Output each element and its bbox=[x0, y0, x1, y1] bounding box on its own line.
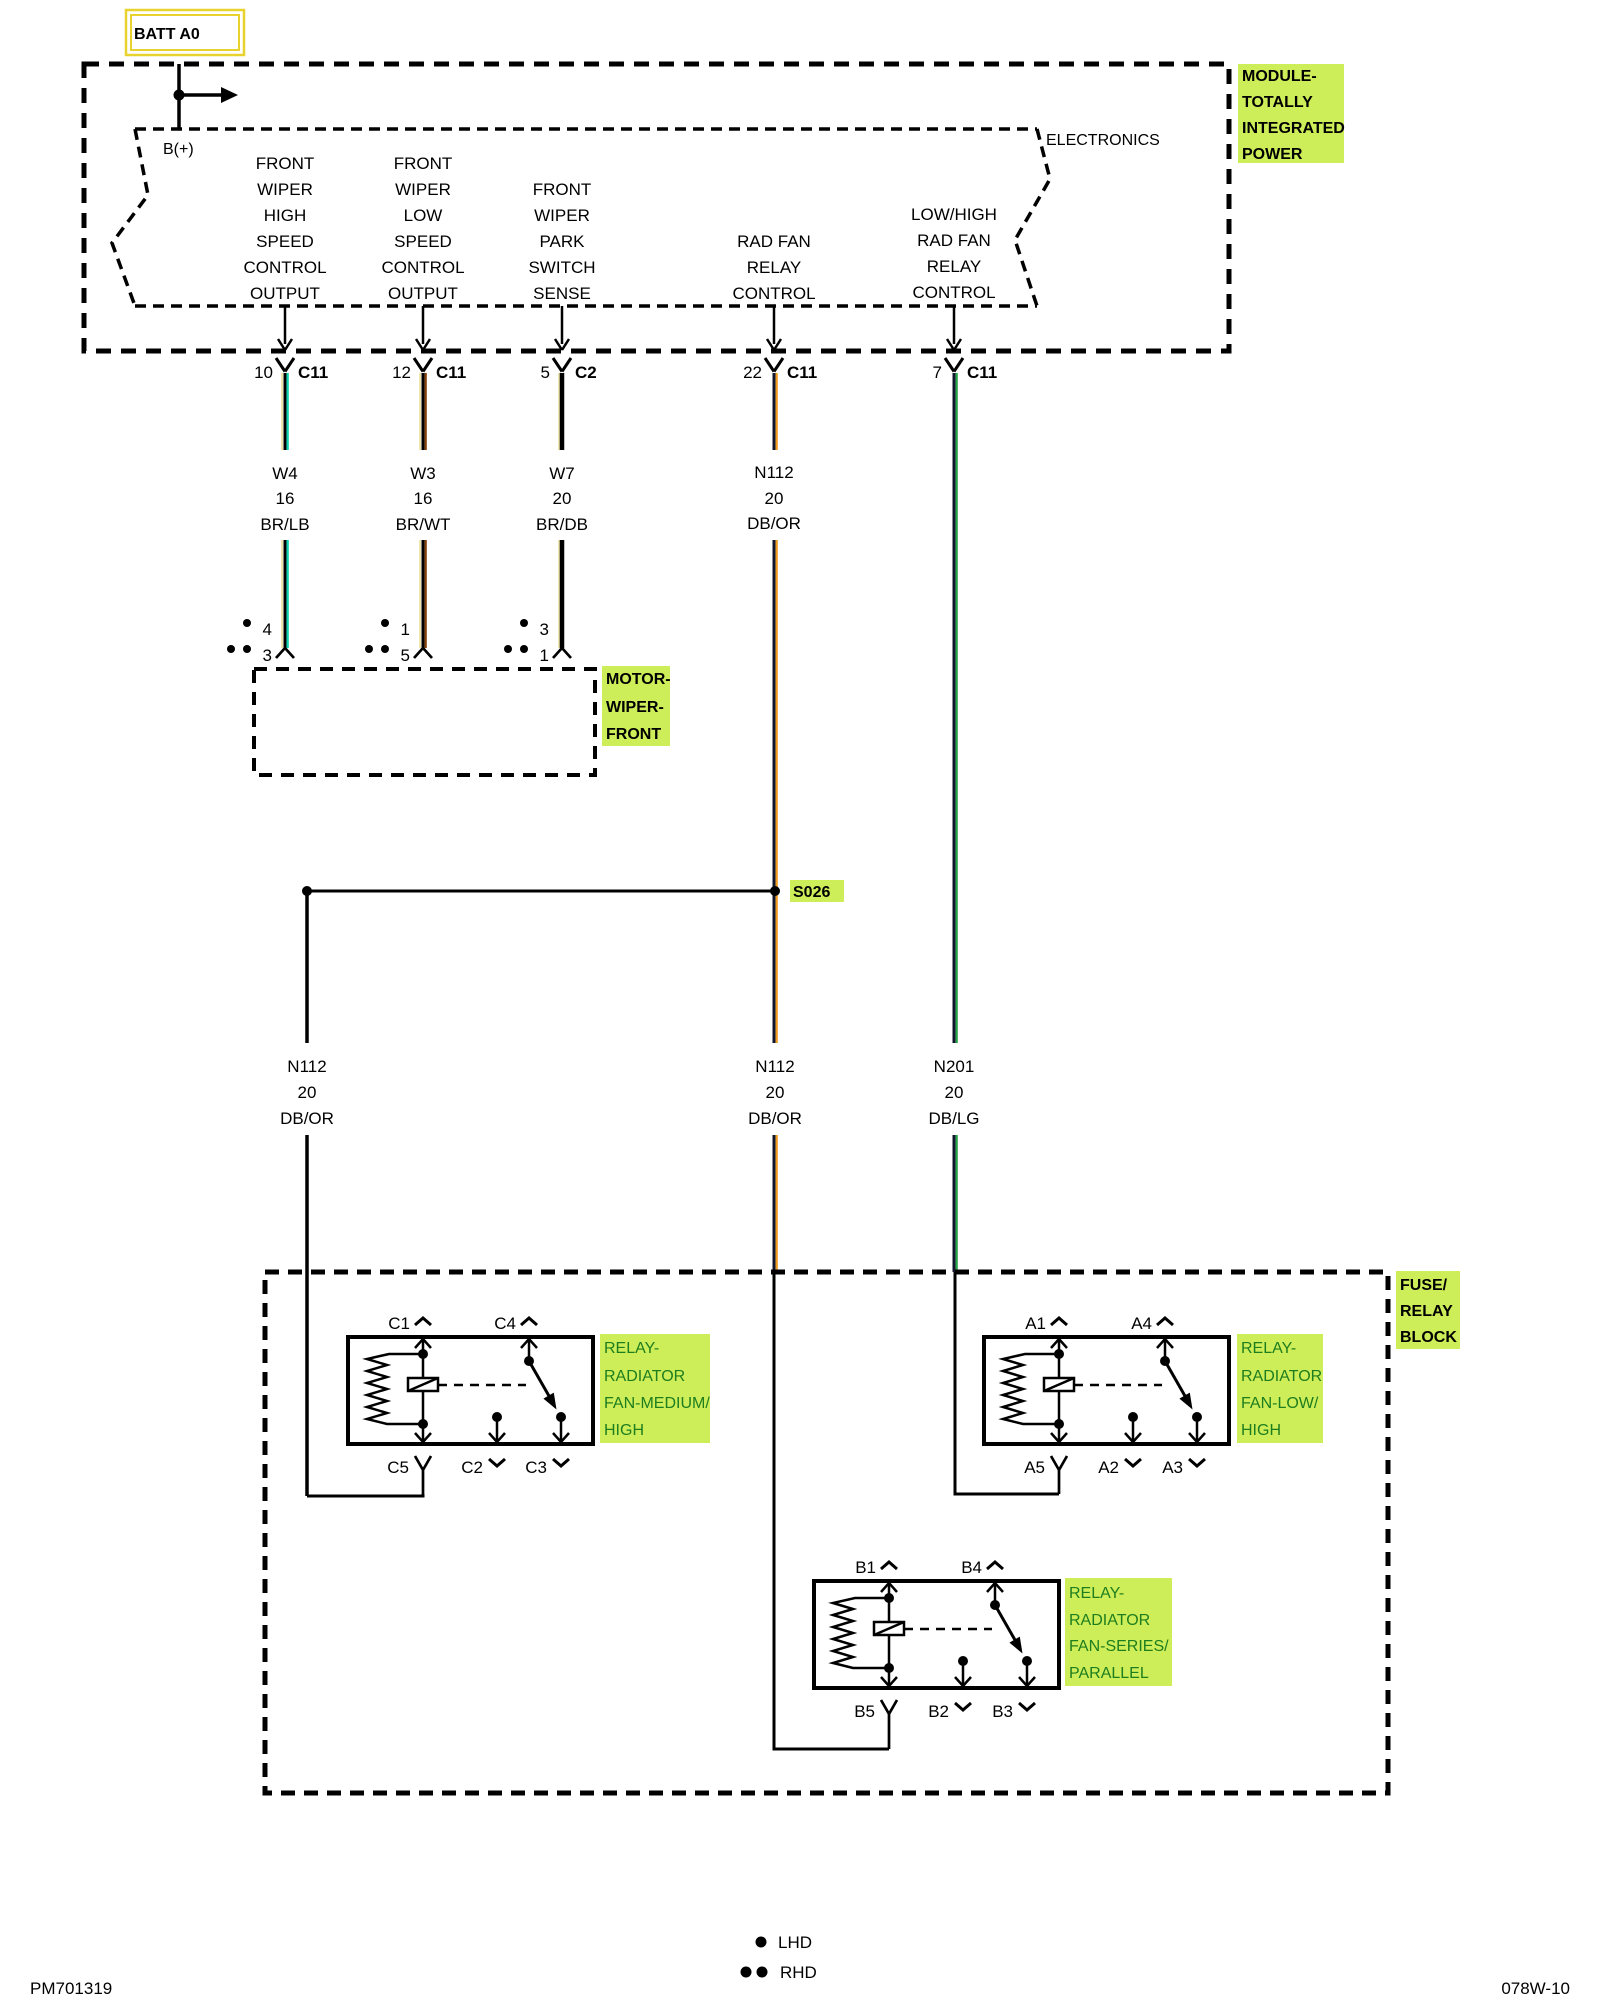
wire label W7 20 BR/DB bbox=[536, 464, 588, 534]
svg-text:N112: N112 bbox=[755, 1057, 794, 1076]
svg-text:HIGH: HIGH bbox=[604, 1422, 644, 1439]
wire N201 20 DB/LG (dark blue/light green) bbox=[953, 373, 956, 1043]
svg-text:FRONT: FRONT bbox=[394, 154, 453, 173]
label RELAY-RADIATOR FAN-SERIES/PARALLEL bbox=[1065, 1578, 1172, 1686]
svg-text:SPEED: SPEED bbox=[256, 232, 314, 251]
relay RELAY-RADIATOR FAN-SERIES/PARALLEL resistor bbox=[833, 1598, 889, 1668]
label RELAY-RADIATOR FAN-MEDIUM/HIGH bbox=[600, 1334, 710, 1443]
relay RELAY-RADIATOR FAN-LOW/HIGH coil bbox=[1044, 1378, 1074, 1391]
svg-text:5: 5 bbox=[401, 646, 410, 665]
svg-text:RELAY: RELAY bbox=[927, 257, 982, 276]
wire label N112 20 DB/OR (center) bbox=[748, 1057, 802, 1128]
module TIPM outer dashed box bbox=[84, 64, 1229, 351]
svg-text:CONTROL: CONTROL bbox=[381, 258, 464, 277]
relay RELAY-RADIATOR FAN-LOW/HIGH switch arm bbox=[1165, 1361, 1189, 1403]
module output arrow col 1 bbox=[284, 306, 287, 344]
svg-text:SENSE: SENSE bbox=[533, 284, 591, 303]
connector C11 pin 7 bbox=[933, 358, 998, 382]
svg-text:20: 20 bbox=[298, 1083, 317, 1102]
svg-text:FRONT: FRONT bbox=[533, 180, 592, 199]
svg-text:10: 10 bbox=[254, 363, 273, 382]
svg-text:LOW/HIGH: LOW/HIGH bbox=[911, 205, 997, 224]
svg-text:RAD FAN: RAD FAN bbox=[737, 232, 811, 251]
LHD pin dot and number 1 bbox=[381, 619, 389, 627]
svg-text:ELECTRONICS: ELECTRONICS bbox=[1046, 132, 1160, 149]
module output arrow col 2 bbox=[422, 306, 425, 344]
svg-text:WIPER: WIPER bbox=[534, 206, 590, 225]
svg-text:C11: C11 bbox=[298, 363, 328, 382]
svg-text:BATT A0: BATT A0 bbox=[134, 26, 200, 43]
relay RELAY-RADIATOR FAN-LOW/HIGH coil feed line pin A1 bbox=[1058, 1337, 1061, 1424]
svg-text:RELAY: RELAY bbox=[747, 258, 802, 277]
svg-text:RELAY-: RELAY- bbox=[604, 1340, 659, 1357]
relay RELAY-RADIATOR FAN-SERIES/PARALLEL body bbox=[814, 1581, 1059, 1688]
svg-text:20: 20 bbox=[765, 489, 784, 508]
relay RELAY-RADIATOR FAN-MEDIUM/HIGH pin C4 chevron and label bbox=[521, 1318, 537, 1325]
svg-text:078W-10: 078W-10 bbox=[1501, 1979, 1570, 1998]
relay RELAY-RADIATOR FAN-MEDIUM/HIGH switch arm bbox=[529, 1361, 553, 1403]
svg-text:BLOCK: BLOCK bbox=[1400, 1329, 1457, 1346]
RHD pin dots and number 5 bbox=[365, 645, 373, 653]
label RELAY-RADIATOR FAN-LOW/HIGH bbox=[1237, 1334, 1323, 1443]
splice dot S026 bbox=[770, 886, 780, 896]
relay RELAY-RADIATOR FAN-SERIES/PARALLEL NC contact pin B2 bbox=[958, 1656, 968, 1666]
svg-text:OUTPUT: OUTPUT bbox=[388, 284, 458, 303]
svg-text:PARK: PARK bbox=[539, 232, 585, 251]
svg-text:WIPER-: WIPER- bbox=[606, 699, 664, 716]
junction dot B(+) bbox=[174, 90, 185, 101]
svg-text:PARALLEL: PARALLEL bbox=[1069, 1665, 1149, 1682]
svg-text:RHD: RHD bbox=[780, 1963, 817, 1982]
svg-text:POWER: POWER bbox=[1242, 146, 1303, 163]
relay RELAY-RADIATOR FAN-LOW/HIGH pin A3 chevron and label bbox=[1189, 1459, 1205, 1466]
relay RELAY-RADIATOR FAN-MEDIUM/HIGH common line pin C4 bbox=[528, 1337, 531, 1361]
svg-text:W4: W4 bbox=[272, 464, 298, 483]
svg-text:N201: N201 bbox=[934, 1057, 975, 1076]
svg-text:C11: C11 bbox=[436, 363, 466, 382]
svg-text:B2: B2 bbox=[928, 1702, 949, 1721]
relay RELAY-RADIATOR FAN-SERIES/PARALLEL junction dots on coil line bbox=[884, 1593, 894, 1603]
svg-text:A1: A1 bbox=[1025, 1314, 1046, 1333]
connector C2 pin 5 bbox=[541, 358, 597, 382]
svg-text:20: 20 bbox=[945, 1083, 964, 1102]
svg-text:A3: A3 bbox=[1162, 1458, 1183, 1477]
motor connector fork col 3 bbox=[553, 648, 571, 658]
svg-text:CONTROL: CONTROL bbox=[243, 258, 326, 277]
svg-text:B3: B3 bbox=[992, 1702, 1013, 1721]
relay RELAY-RADIATOR FAN-LOW/HIGH NO contact pin A3 bbox=[1192, 1412, 1202, 1422]
module label MODULE-TOTALLY INTEGRATED POWER bbox=[1238, 64, 1345, 163]
wire label W4 16 BR/LB bbox=[260, 464, 309, 534]
relay RELAY-RADIATOR FAN-SERIES/PARALLEL pin B2 chevron and label bbox=[955, 1703, 971, 1710]
svg-text:C4: C4 bbox=[494, 1314, 516, 1333]
relay RELAY-RADIATOR FAN-LOW/HIGH pin A5 connector fork and label bbox=[1051, 1456, 1067, 1494]
relay RELAY-RADIATOR FAN-MEDIUM/HIGH coil feed line pin C1 bbox=[422, 1337, 425, 1424]
arrow to other circuits bbox=[179, 93, 222, 97]
wire W4 16 BR/LB (brown/light blue) bbox=[281, 373, 283, 450]
svg-text:20: 20 bbox=[766, 1083, 785, 1102]
svg-text:W7: W7 bbox=[549, 464, 575, 483]
svg-text:RELAY-: RELAY- bbox=[1069, 1585, 1124, 1602]
svg-text:FAN-LOW/: FAN-LOW/ bbox=[1241, 1395, 1319, 1412]
svg-text:C11: C11 bbox=[787, 363, 817, 382]
svg-text:B1: B1 bbox=[855, 1558, 876, 1577]
svg-text:BR/DB: BR/DB bbox=[536, 515, 588, 534]
svg-text:A2: A2 bbox=[1098, 1458, 1119, 1477]
svg-text:RAD FAN: RAD FAN bbox=[917, 231, 991, 250]
relay RELAY-RADIATOR FAN-MEDIUM/HIGH pin C3 chevron and label bbox=[553, 1459, 569, 1466]
legend LHD bbox=[756, 1933, 813, 1952]
svg-text:FAN-SERIES/: FAN-SERIES/ bbox=[1069, 1638, 1169, 1655]
relay RELAY-RADIATOR FAN-MEDIUM/HIGH junction dots on coil line bbox=[418, 1349, 428, 1359]
svg-text:W3: W3 bbox=[410, 464, 436, 483]
svg-text:HIGH: HIGH bbox=[264, 206, 307, 225]
svg-text:TOTALLY: TOTALLY bbox=[1242, 94, 1313, 111]
svg-text:WIPER: WIPER bbox=[395, 180, 451, 199]
power feed label BATT A0 bbox=[126, 10, 244, 55]
wire label W3 16 BR/WT bbox=[396, 464, 451, 534]
RHD pin dots and number 1 bbox=[504, 645, 512, 653]
relay RELAY-RADIATOR FAN-LOW/HIGH pin A1 chevron and label bbox=[1051, 1318, 1067, 1325]
relay RELAY-RADIATOR FAN-MEDIUM/HIGH body bbox=[348, 1337, 593, 1444]
svg-text:B5: B5 bbox=[854, 1702, 875, 1721]
wire N112 20 DB/OR (dark blue/orange) upper bbox=[773, 373, 776, 450]
svg-text:OUTPUT: OUTPUT bbox=[250, 284, 320, 303]
module output text LOW/HIGH RAD FAN RELAY CONTROL bbox=[911, 205, 997, 302]
wire W7 20 BR/DB (brown/dark blue) bbox=[558, 373, 560, 450]
label FUSE/RELAY BLOCK bbox=[1396, 1271, 1460, 1349]
svg-text:FRONT: FRONT bbox=[256, 154, 315, 173]
LHD pin dot and number 3 bbox=[520, 619, 528, 627]
svg-text:RELAY: RELAY bbox=[1400, 1303, 1453, 1320]
relay RELAY-RADIATOR FAN-LOW/HIGH pin A4 chevron and label bbox=[1157, 1318, 1173, 1325]
svg-text:C1: C1 bbox=[388, 1314, 410, 1333]
label MOTOR-WIPER-FRONT bbox=[602, 666, 671, 746]
motor connector fork col 2 bbox=[414, 648, 432, 658]
svg-text:16: 16 bbox=[276, 489, 295, 508]
svg-text:4: 4 bbox=[263, 620, 272, 639]
svg-text:LHD: LHD bbox=[778, 1933, 812, 1952]
relay RELAY-RADIATOR FAN-LOW/HIGH actuation dashed link bbox=[1074, 1384, 1162, 1387]
svg-text:DB/LG: DB/LG bbox=[928, 1109, 979, 1128]
svg-text:RADIATOR: RADIATOR bbox=[1069, 1612, 1150, 1629]
svg-text:INTEGRATED: INTEGRATED bbox=[1242, 120, 1345, 137]
svg-text:22: 22 bbox=[743, 363, 762, 382]
svg-text:C3: C3 bbox=[525, 1458, 547, 1477]
svg-text:CONTROL: CONTROL bbox=[912, 283, 995, 302]
relay RELAY-RADIATOR FAN-SERIES/PARALLEL common line pin B4 bbox=[994, 1581, 997, 1605]
wire relay A5 loop bbox=[955, 1272, 1059, 1494]
relay RELAY-RADIATOR FAN-SERIES/PARALLEL coil feed line pin B1 bbox=[888, 1581, 891, 1668]
svg-text:S026: S026 bbox=[793, 884, 830, 901]
relay RELAY-RADIATOR FAN-SERIES/PARALLEL pin B5 connector fork and label bbox=[881, 1700, 897, 1749]
module output text FRONT WIPER PARK SWITCH SENSE bbox=[528, 180, 595, 303]
wire left branch N112 (black) bbox=[305, 894, 309, 1496]
relay RELAY-RADIATOR FAN-SERIES/PARALLEL pin B4 chevron and label bbox=[987, 1562, 1003, 1569]
svg-text:B(+): B(+) bbox=[163, 141, 194, 158]
svg-text:C11: C11 bbox=[967, 363, 997, 382]
svg-text:1: 1 bbox=[401, 620, 410, 639]
wire label N112 20 DB/OR (left branch) bbox=[280, 1057, 334, 1128]
relay RELAY-RADIATOR FAN-SERIES/PARALLEL NO contact pin B3 bbox=[1022, 1656, 1032, 1666]
module output arrow col 5 bbox=[953, 306, 956, 344]
relay RELAY-RADIATOR FAN-LOW/HIGH NC contact pin A2 bbox=[1128, 1412, 1138, 1422]
svg-text:BR/LB: BR/LB bbox=[260, 515, 309, 534]
svg-text:RADIATOR: RADIATOR bbox=[1241, 1368, 1322, 1385]
svg-text:BR/WT: BR/WT bbox=[396, 515, 451, 534]
svg-text:FRONT: FRONT bbox=[606, 726, 661, 743]
svg-text:DB/OR: DB/OR bbox=[747, 514, 801, 533]
relay RELAY-RADIATOR FAN-SERIES/PARALLEL coil bbox=[874, 1622, 904, 1635]
svg-text:PM701319: PM701319 bbox=[30, 1979, 112, 1998]
svg-text:C2: C2 bbox=[461, 1458, 483, 1477]
svg-text:N112: N112 bbox=[754, 463, 793, 482]
svg-text:B4: B4 bbox=[961, 1558, 982, 1577]
relay RELAY-RADIATOR FAN-MEDIUM/HIGH NO contact pin C3 bbox=[556, 1412, 566, 1422]
svg-text:1: 1 bbox=[540, 646, 549, 665]
svg-text:WIPER: WIPER bbox=[257, 180, 313, 199]
wire BATT feed into module bbox=[177, 64, 181, 128]
relay RELAY-RADIATOR FAN-LOW/HIGH junction dots on coil line bbox=[1054, 1349, 1064, 1359]
svg-text:LOW: LOW bbox=[404, 206, 443, 225]
svg-text:5: 5 bbox=[541, 363, 550, 382]
svg-text:C2: C2 bbox=[575, 363, 597, 382]
svg-text:A4: A4 bbox=[1131, 1314, 1152, 1333]
wire relay C5 loop bbox=[307, 1494, 423, 1496]
relay RELAY-RADIATOR FAN-MEDIUM/HIGH pin C5 connector fork and label bbox=[415, 1456, 431, 1496]
relay RELAY-RADIATOR FAN-LOW/HIGH bottom arrow pin A5 bbox=[1058, 1424, 1061, 1442]
relay RELAY-RADIATOR FAN-MEDIUM/HIGH pin C1 chevron and label bbox=[415, 1318, 431, 1325]
svg-text:MOTOR-: MOTOR- bbox=[606, 671, 671, 688]
relay RELAY-RADIATOR FAN-MEDIUM/HIGH NC contact pin C2 bbox=[492, 1412, 502, 1422]
relay RELAY-RADIATOR FAN-LOW/HIGH body bbox=[984, 1337, 1229, 1444]
svg-text:FUSE/: FUSE/ bbox=[1400, 1277, 1448, 1294]
wire label N201 20 DB/LG bbox=[928, 1057, 979, 1128]
splice dot left bbox=[302, 886, 312, 896]
relay RELAY-RADIATOR FAN-SERIES/PARALLEL switch arm bbox=[995, 1605, 1019, 1647]
splice S026 horizontal wire bbox=[307, 890, 775, 893]
relay RELAY-RADIATOR FAN-MEDIUM/HIGH resistor bbox=[367, 1354, 423, 1424]
LHD pin dot and number 4 bbox=[243, 619, 251, 627]
svg-text:DB/OR: DB/OR bbox=[280, 1109, 334, 1128]
module output text FRONT WIPER HIGH SPEED CONTROL OUTPUT bbox=[243, 154, 326, 303]
svg-text:16: 16 bbox=[414, 489, 433, 508]
svg-text:A5: A5 bbox=[1024, 1458, 1045, 1477]
svg-text:CONTROL: CONTROL bbox=[732, 284, 815, 303]
svg-text:DB/OR: DB/OR bbox=[748, 1109, 802, 1128]
svg-text:N112: N112 bbox=[287, 1057, 326, 1076]
motor-wiper-front dashed box bbox=[254, 669, 595, 775]
wire W3 16 BR/WT (brown/white) bbox=[419, 373, 421, 450]
relay RELAY-RADIATOR FAN-SERIES/PARALLEL actuation dashed link bbox=[904, 1628, 992, 1631]
connector C11 pin 22 bbox=[743, 358, 817, 382]
svg-text:C5: C5 bbox=[387, 1458, 409, 1477]
wire relay B5 loop bbox=[774, 1272, 889, 1749]
svg-text:7: 7 bbox=[933, 363, 942, 382]
relay RELAY-RADIATOR FAN-LOW/HIGH resistor bbox=[1003, 1354, 1059, 1424]
module output text FRONT WIPER LOW SPEED CONTROL OUTPUT bbox=[381, 154, 464, 303]
module output arrow col 3 bbox=[561, 306, 564, 344]
relay RELAY-RADIATOR FAN-SERIES/PARALLEL pin B3 chevron and label bbox=[1019, 1703, 1035, 1710]
relay RELAY-RADIATOR FAN-MEDIUM/HIGH coil bbox=[408, 1378, 438, 1391]
legend RHD bbox=[741, 1963, 817, 1982]
relay RELAY-RADIATOR FAN-MEDIUM/HIGH bottom arrow pin C5 bbox=[422, 1424, 425, 1442]
label S026 bbox=[790, 880, 844, 902]
relay RELAY-RADIATOR FAN-SERIES/PARALLEL bottom arrow pin B5 bbox=[888, 1668, 891, 1686]
connector C11 pin 10 bbox=[254, 358, 328, 382]
relay RELAY-RADIATOR FAN-LOW/HIGH pin A2 chevron and label bbox=[1125, 1459, 1141, 1466]
svg-text:RELAY-: RELAY- bbox=[1241, 1340, 1296, 1357]
relay RELAY-RADIATOR FAN-SERIES/PARALLEL pin B1 chevron and label bbox=[881, 1562, 897, 1569]
connector C11 pin 12 bbox=[392, 358, 466, 382]
relay RELAY-RADIATOR FAN-MEDIUM/HIGH actuation dashed link bbox=[438, 1384, 526, 1387]
svg-text:20: 20 bbox=[553, 489, 572, 508]
wire label N112 20 DB/OR bbox=[747, 463, 801, 533]
motor connector fork col 1 bbox=[276, 648, 294, 658]
svg-text:3: 3 bbox=[540, 620, 549, 639]
svg-text:MODULE-: MODULE- bbox=[1242, 68, 1317, 85]
svg-text:SPEED: SPEED bbox=[394, 232, 452, 251]
module output text RAD FAN RELAY CONTROL bbox=[732, 232, 815, 303]
svg-text:RADIATOR: RADIATOR bbox=[604, 1368, 685, 1385]
fuse/relay block dashed box bbox=[265, 1272, 1388, 1793]
module output arrow col 4 bbox=[773, 306, 776, 344]
RHD pin dots and number 3 bbox=[227, 645, 235, 653]
relay RELAY-RADIATOR FAN-LOW/HIGH common line pin A4 bbox=[1164, 1337, 1167, 1361]
electronics inner dashed shape bbox=[112, 129, 1050, 306]
svg-text:SWITCH: SWITCH bbox=[528, 258, 595, 277]
svg-text:FAN-MEDIUM/: FAN-MEDIUM/ bbox=[604, 1395, 710, 1412]
svg-text:HIGH: HIGH bbox=[1241, 1422, 1281, 1439]
svg-text:3: 3 bbox=[263, 646, 272, 665]
relay RELAY-RADIATOR FAN-MEDIUM/HIGH pin C2 chevron and label bbox=[489, 1459, 505, 1466]
svg-text:12: 12 bbox=[392, 363, 411, 382]
